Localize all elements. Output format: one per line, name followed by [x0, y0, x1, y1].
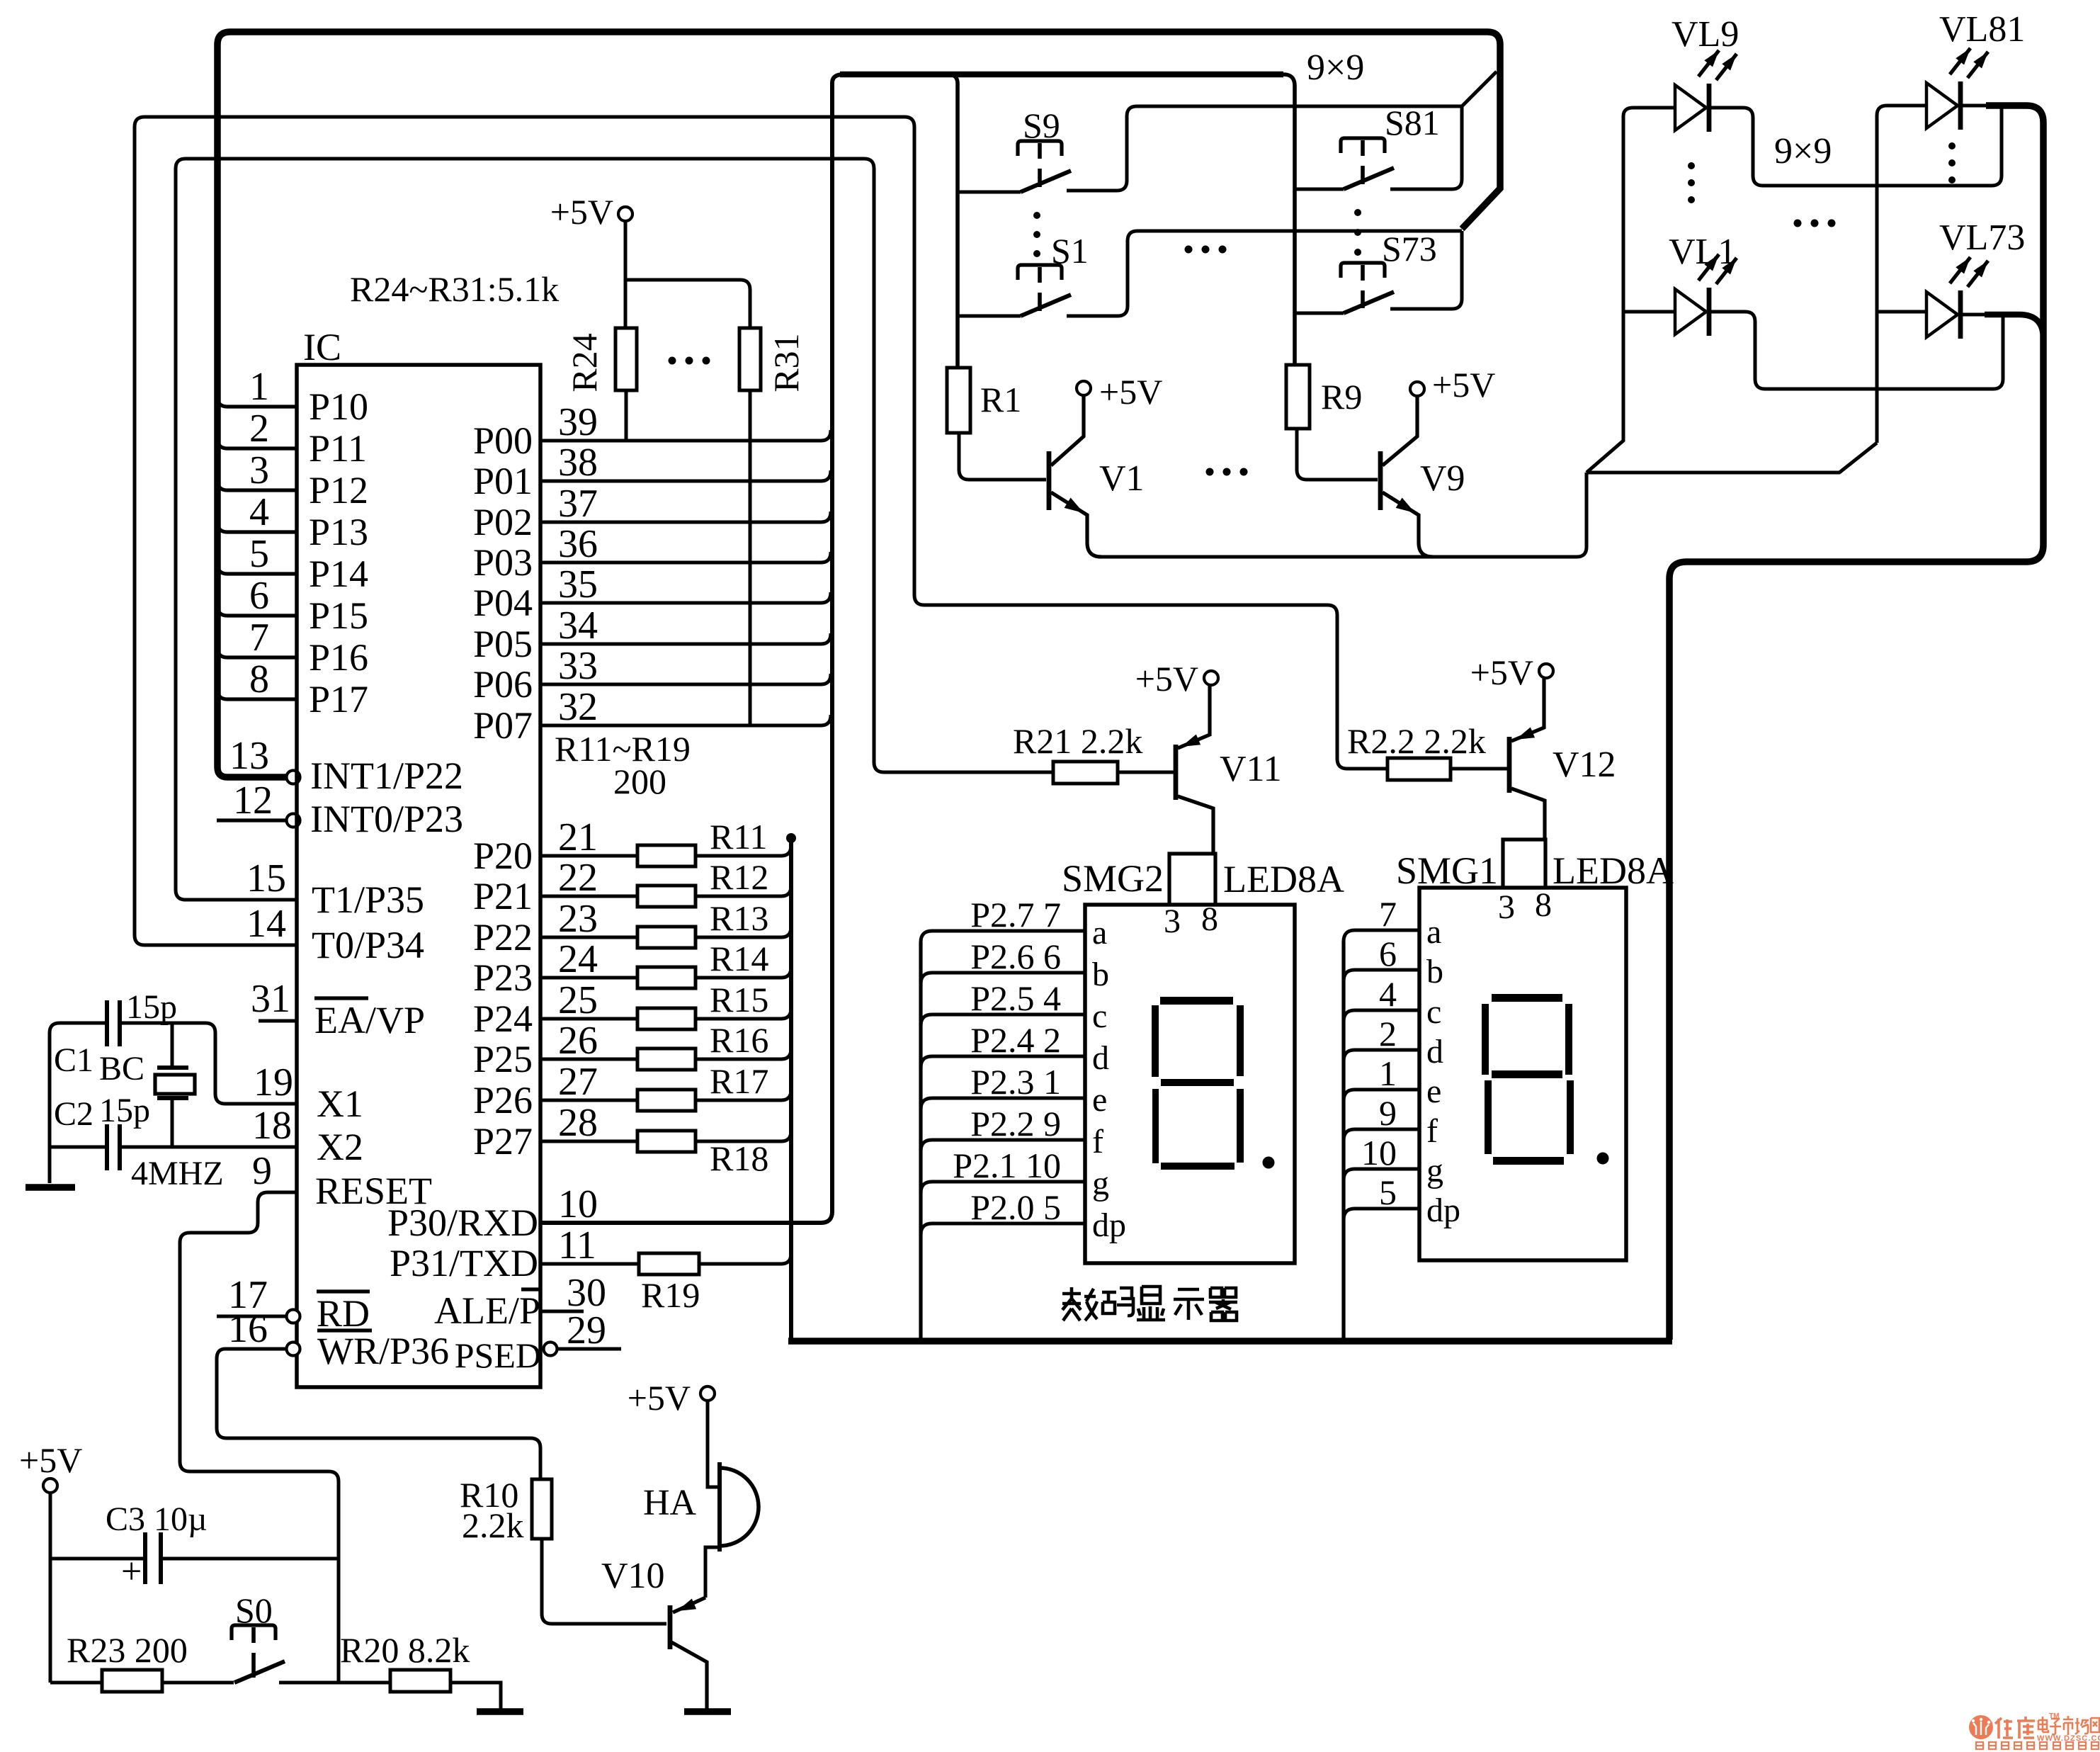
wire S73 left contact	[1295, 312, 1344, 315]
transistor V12 base bar	[1507, 737, 1512, 793]
svg-text:P01: P01	[473, 460, 533, 502]
switch S9 (pushbutton)	[1018, 141, 1062, 156]
LED VL1 triangle	[1675, 289, 1706, 334]
svg-text:31: 31	[251, 977, 290, 1021]
svg-text:P22: P22	[473, 916, 533, 959]
wire S81 right contact to row 1	[1390, 106, 1462, 189]
wire pin 5 stub P14	[217, 564, 297, 574]
wire speaker to V10 emitter	[705, 1547, 720, 1598]
wire R9 to V9 base	[1297, 429, 1378, 480]
speaker HA	[717, 1462, 722, 1552]
svg-text:d: d	[1092, 1039, 1109, 1077]
svg-text:P05: P05	[473, 623, 533, 665]
wire T1/P35 row-select line to V11 base (via R21)	[176, 159, 1053, 900]
wire R15 output to segment bus	[696, 1008, 791, 1019]
svg-text:C3 10µ: C3 10µ	[106, 1500, 208, 1538]
wire pin 1 stub P10	[217, 397, 297, 407]
wire R14 output to segment bus	[696, 967, 791, 978]
resistor R21 (2.2k) base resistor of V11	[1053, 762, 1118, 784]
wire S81 left contact	[1295, 188, 1344, 191]
wire SMG1 pin stub c	[1344, 1010, 1419, 1022]
svg-text:33: 33	[558, 644, 598, 688]
wire pin 21 P20 line	[540, 854, 637, 858]
transistor V11 base bar	[1174, 745, 1179, 800]
pin 29 bubble PSED	[544, 1343, 557, 1356]
svg-text:V10: V10	[601, 1556, 665, 1596]
power +5V terminal V12	[1539, 664, 1553, 678]
LED VL73 cathode bar	[1958, 290, 1963, 339]
svg-text:INT1/P22: INT1/P22	[310, 755, 463, 797]
wire pin 36 P03 line to P0 bus	[540, 552, 831, 563]
dots between S1 and S73	[1185, 246, 1193, 254]
svg-text:b: b	[1092, 956, 1109, 993]
wire R10 to V10 base	[542, 1539, 666, 1624]
LED VL1 light arrows	[1698, 254, 1719, 281]
SMG2 digit segment upper-right	[1237, 1005, 1244, 1076]
svg-text:S81: S81	[1385, 103, 1440, 142]
wire SMG1 segment fan bus	[1341, 942, 1345, 1341]
svg-text:+5V: +5V	[1099, 372, 1162, 412]
resistor R2.2 (2.2k) base resistor of V12	[1387, 758, 1451, 780]
wire VL73 row to thick bus	[1985, 315, 2043, 339]
svg-text:P2.7 7: P2.7 7	[970, 895, 1061, 934]
wire C2 to ground rail	[50, 1146, 105, 1149]
wire SMG2 pin stub b	[921, 973, 1085, 984]
svg-text:R19: R19	[641, 1275, 700, 1315]
svg-text:P2.6 6: P2.6 6	[970, 937, 1061, 976]
switch S81 (pushbutton)	[1341, 138, 1385, 153]
svg-text:24: 24	[558, 937, 598, 981]
svg-text:S73: S73	[1382, 229, 1437, 269]
SMG2 digit segment lower-left	[1152, 1089, 1159, 1163]
SMG1 common pin tab	[1503, 840, 1545, 888]
svg-text:P27: P27	[473, 1120, 533, 1163]
wire pin 8 stub P17	[217, 689, 297, 699]
pin 16 bubble	[287, 1343, 300, 1356]
wire +5V to R24	[624, 221, 628, 328]
switch S1 (pushbutton)	[1018, 265, 1062, 280]
svg-text:dp: dp	[1426, 1192, 1460, 1229]
svg-text:39: 39	[558, 400, 598, 444]
svg-text:BC: BC	[99, 1050, 144, 1087]
svg-text:200: 200	[613, 762, 666, 801]
wire +5V to speaker	[708, 1401, 720, 1487]
wire pin 28 P27 line	[540, 1140, 637, 1143]
svg-text:P2.4 2: P2.4 2	[970, 1020, 1061, 1060]
wire SMG1 pin stub a	[1344, 930, 1419, 942]
LED VL81 cathode bar	[1958, 81, 1963, 130]
svg-text:P02: P02	[473, 501, 533, 543]
resistor R1	[947, 368, 970, 433]
wire pin 3 stub P12	[217, 480, 297, 490]
svg-text:P2.1 10: P2.1 10	[953, 1146, 1061, 1185]
svg-text:34: 34	[558, 604, 598, 648]
IC U1 (8051 MCU) body	[297, 365, 540, 1387]
wire C3 left	[50, 1557, 143, 1561]
wire pin 29 stub PSED	[557, 1347, 621, 1351]
wire LED column 9 riser	[1877, 106, 1926, 443]
svg-text:8: 8	[1201, 900, 1218, 938]
crystal BC lower plate and lead	[157, 1096, 188, 1100]
svg-text:27: 27	[558, 1060, 598, 1104]
transistor V9 emitter	[1383, 492, 1433, 557]
svg-text:35: 35	[558, 563, 598, 606]
resistor R9	[1286, 365, 1310, 429]
SMG2 decimal point	[1263, 1157, 1275, 1169]
resistor R19 (200)	[639, 1253, 699, 1275]
wire R20 to ground	[450, 1683, 501, 1709]
svg-text:C1: C1	[54, 1041, 93, 1079]
wire pin 2 stub P11	[217, 439, 297, 448]
svg-text:e: e	[1426, 1073, 1441, 1110]
wire pin 26 P25 line	[540, 1058, 637, 1061]
wire SMG1 pin stub e	[1344, 1090, 1419, 1101]
SMG2 digit segment middle	[1161, 1079, 1234, 1086]
dots between S9 and S1	[1033, 212, 1040, 219]
wire R31 down to P07 line	[749, 390, 752, 725]
power +5V terminal V9	[1410, 382, 1424, 396]
svg-text:HA: HA	[643, 1483, 697, 1523]
wire T0/P34 row-select line to V12 base (via R2.2)	[135, 117, 1387, 945]
wire VL73 anode from column 9	[1877, 310, 1926, 314]
svg-text:6: 6	[249, 574, 269, 618]
svg-text:R17: R17	[710, 1061, 768, 1101]
V1 emitter arrow	[1065, 498, 1084, 514]
wire segment bus bottom (thick, under displays)	[788, 1338, 1672, 1345]
svg-text:3: 3	[1164, 903, 1181, 940]
svg-text:P25: P25	[473, 1038, 533, 1080]
label shuma xianshiqi (digital display)	[1062, 1287, 1237, 1321]
wire R1 to V1 base	[959, 433, 1046, 480]
svg-text:18: 18	[252, 1104, 292, 1148]
V9 emitter arrow	[1396, 498, 1415, 514]
svg-text:P03: P03	[473, 541, 533, 584]
svg-text:+: +	[121, 1552, 142, 1592]
LED VL1 cathode bar	[1707, 288, 1712, 336]
SMG1 digit segment upper-left	[1482, 1004, 1489, 1075]
LED VL73 light arrows	[1950, 257, 1970, 283]
svg-text:2.2k: 2.2k	[462, 1505, 524, 1545]
LED VL81 triangle	[1926, 83, 1958, 128]
svg-text:R11: R11	[710, 817, 768, 857]
transistor V12 emitter to +5V	[1511, 678, 1544, 741]
wire branch to R31	[625, 280, 750, 328]
SMG1 digit segment upper-right	[1565, 1004, 1572, 1075]
wire key column 9 drop (S81/S73 column)	[1283, 74, 1295, 365]
wire key row 1 (S9..S81 right contacts to bus)	[1067, 72, 1497, 191]
wire R21 to V11 base	[1118, 771, 1174, 774]
svg-text:VL1: VL1	[1669, 232, 1736, 272]
resistor R20 (8.2k)	[390, 1670, 450, 1692]
svg-text:RD: RD	[317, 1292, 370, 1335]
svg-text:VL81: VL81	[1939, 9, 2025, 50]
transistor V1 emitter	[1051, 492, 1101, 557]
wire pin 34 P05 line to P0 bus	[540, 633, 831, 644]
svg-text:6: 6	[1379, 934, 1397, 973]
transistor V11 emitter to +5V	[1178, 685, 1210, 748]
wire pin 30 stub ALE/P	[540, 1310, 584, 1313]
svg-text:P16: P16	[309, 636, 368, 679]
svg-text:15p: 15p	[126, 988, 177, 1026]
svg-text:P15: P15	[309, 594, 368, 637]
svg-text:P12: P12	[309, 469, 368, 512]
LED VL9 light arrows	[1698, 50, 1719, 77]
display SMG1 body	[1419, 888, 1626, 1260]
wire pin 6 stub P15	[217, 606, 297, 616]
svg-text:d: d	[1426, 1033, 1443, 1070]
resistor R13 (200)	[637, 927, 696, 948]
svg-text:S9: S9	[1023, 106, 1060, 145]
wire R23 to S0	[162, 1681, 234, 1685]
svg-text:g: g	[1426, 1152, 1443, 1189]
wire R13 output to segment bus	[696, 927, 791, 937]
watermark logo circle	[1969, 1715, 1993, 1739]
wire C3 right to reset node	[161, 1557, 339, 1561]
svg-text:32: 32	[558, 685, 598, 729]
wire S1 left contact	[958, 315, 1021, 318]
svg-text:14: 14	[246, 902, 286, 946]
wire pin 35 P04 line to P0 bus	[540, 592, 831, 603]
svg-text:+5V: +5V	[1470, 652, 1533, 692]
wire pin 23 P22 line	[540, 936, 637, 939]
wire pin 37 P02 line to P0 bus	[540, 512, 831, 522]
svg-text:4: 4	[249, 490, 269, 534]
svg-text:9: 9	[252, 1149, 272, 1193]
svg-text:+5V: +5V	[1135, 659, 1198, 699]
wire pin 4 stub P13	[217, 522, 297, 532]
svg-text:ALE/P: ALE/P	[434, 1289, 540, 1332]
svg-text:LED8A: LED8A	[1223, 858, 1344, 900]
svg-text:R13: R13	[710, 898, 768, 938]
svg-text:P24: P24	[473, 997, 533, 1040]
wire WR/P36 to R10	[217, 1349, 540, 1479]
transistor V11 collector to SMG2	[1178, 796, 1213, 854]
junction dot segment bus top	[786, 833, 796, 843]
SMG2 common pin tab	[1169, 854, 1215, 905]
svg-text:P23: P23	[473, 956, 533, 999]
SMG1 digit segment lower-left	[1485, 1080, 1492, 1154]
svg-text:8: 8	[249, 657, 269, 701]
resistor R11 (200)	[637, 845, 696, 866]
wire SMG2 pin stub f	[921, 1140, 1085, 1151]
capacitor C2 plates	[105, 1124, 109, 1170]
wire VL73 cathode out	[1960, 313, 1987, 317]
power +5V terminal V11	[1204, 671, 1218, 685]
wire segment bus A vertical	[789, 838, 793, 1338]
dots between V1 and V9	[1206, 468, 1214, 476]
LED VL9 triangle	[1675, 85, 1706, 130]
svg-text:P31/TXD: P31/TXD	[390, 1242, 538, 1284]
svg-text:S0: S0	[235, 1590, 273, 1630]
wire SMG1 pin stub d	[1344, 1050, 1419, 1061]
wire LED column 1 riser	[1587, 108, 1675, 473]
svg-text:R9: R9	[1321, 377, 1362, 417]
svg-text:R18: R18	[710, 1138, 768, 1178]
svg-text:P11: P11	[309, 427, 367, 470]
wire X2 pin line	[121, 1146, 297, 1149]
wire SMG2 pin stub a	[921, 931, 1085, 942]
resistor R14 (200)	[637, 967, 696, 988]
wire VL1 cathode loop to row 2	[1709, 312, 2003, 389]
crystal BC upper lead and plate	[171, 1023, 174, 1066]
svg-text:V11: V11	[1220, 749, 1282, 789]
wire SMG2 segment fan bus	[919, 942, 922, 1341]
svg-text:9×9: 9×9	[1307, 47, 1364, 88]
wire P1 bus: P10-P17/INT1 to key-matrix rows (thick top bus)	[217, 32, 1500, 777]
wire C1 to ground rail	[50, 1023, 105, 1183]
svg-text:R23 200: R23 200	[67, 1630, 188, 1670]
transistor V1 base bar	[1047, 451, 1052, 510]
svg-text:3: 3	[1498, 888, 1515, 926]
transistor V12 collector to SMG1	[1511, 789, 1545, 840]
wire S0 right contact to reset node	[279, 1681, 339, 1685]
wire +5V rail to R23	[50, 1681, 102, 1685]
watermark slogan squares	[1976, 1742, 2099, 1749]
wire +5V down to R23	[49, 1493, 52, 1683]
svg-text:e: e	[1092, 1081, 1107, 1119]
svg-text:a: a	[1426, 913, 1441, 951]
resistor R10 (2.2k)	[532, 1479, 552, 1539]
wire key row 2 (S1..S73 right contacts)	[1067, 231, 1462, 316]
svg-text:P06: P06	[473, 663, 533, 706]
svg-text:5: 5	[1379, 1172, 1397, 1212]
svg-text:P13: P13	[309, 511, 368, 553]
wire SMG1 pin stub dp	[1344, 1209, 1419, 1220]
svg-text:R2.2 2.2k: R2.2 2.2k	[1347, 721, 1486, 761]
svg-text:10: 10	[1361, 1133, 1397, 1172]
svg-text:38: 38	[558, 441, 598, 485]
svg-text:R24: R24	[564, 333, 604, 392]
resistor R18 (200)	[637, 1131, 696, 1152]
pin 17 bubble	[287, 1310, 300, 1323]
SMG1 digit segment top	[1492, 994, 1562, 1002]
wire emitter bus to LED columns	[1099, 473, 1587, 557]
svg-text:P14: P14	[309, 553, 368, 595]
svg-text:R14: R14	[710, 939, 768, 978]
svg-text:1: 1	[249, 365, 269, 409]
wire RESET pin to reset network	[180, 1192, 339, 1683]
svg-text:8: 8	[1535, 886, 1552, 924]
wire R12 output to segment bus	[696, 886, 791, 896]
wire pin 17 stub RD	[217, 1315, 286, 1318]
svg-text:25: 25	[558, 978, 598, 1022]
svg-text:11: 11	[558, 1223, 596, 1267]
svg-text:P17: P17	[309, 678, 368, 720]
svg-text:P00: P00	[473, 419, 533, 462]
wire pin 7 stub P16	[217, 648, 297, 657]
svg-text:16: 16	[228, 1307, 268, 1351]
wire R24 to P00 line	[625, 390, 628, 441]
wire pin 31 stub EA/VP	[259, 1019, 297, 1023]
svg-text:IC: IC	[303, 326, 341, 368]
svg-text:R15: R15	[710, 980, 768, 1019]
svg-text:1: 1	[1379, 1053, 1397, 1093]
wire reset node to R20	[339, 1681, 390, 1685]
wire R11 output to segment bus	[696, 845, 791, 856]
svg-text:23: 23	[558, 897, 598, 941]
svg-text:f: f	[1426, 1112, 1438, 1150]
svg-text:P04: P04	[473, 582, 533, 624]
wire R19 output to segment bus	[699, 1253, 791, 1264]
V10 emitter arrow	[677, 1599, 696, 1612]
ground (R20)	[477, 1708, 523, 1715]
switch S73 (pushbutton)	[1341, 263, 1385, 278]
wire P0 bus top horizontal (thick)	[840, 72, 1283, 78]
wire P0 bus vertical (to key matrix columns, ends at P30/RXD pin 10)	[540, 74, 844, 1223]
svg-text:4: 4	[1379, 974, 1397, 1014]
svg-text:3: 3	[249, 448, 269, 492]
transistor V10 emitter (from speaker)	[673, 1598, 705, 1612]
svg-text:29: 29	[567, 1309, 606, 1352]
svg-text:f: f	[1092, 1123, 1103, 1160]
transistor V10 collector to ground	[671, 1642, 707, 1709]
svg-text:C2: C2	[54, 1095, 93, 1133]
svg-text:T0/P34: T0/P34	[312, 924, 424, 966]
svg-text:P30/RXD: P30/RXD	[387, 1202, 538, 1244]
wire pin 24 P23 line	[540, 976, 637, 980]
svg-text:P07: P07	[473, 704, 533, 747]
svg-text:b: b	[1426, 953, 1443, 990]
svg-text:+5V: +5V	[550, 192, 613, 232]
wire LED column bus bottom	[1587, 443, 1877, 473]
V11 emitter arrow	[1181, 735, 1201, 747]
svg-text:5: 5	[249, 532, 269, 576]
svg-text:SMG1: SMG1	[1396, 849, 1498, 892]
svg-text:22: 22	[558, 856, 598, 900]
dots between R24 and R31	[669, 357, 676, 365]
wire pin 11 P31/TXD line to R19	[540, 1262, 639, 1266]
svg-text:V9: V9	[1420, 458, 1465, 499]
wire R16 output to segment bus	[696, 1049, 791, 1059]
wire SMG2 pin stub c	[921, 1015, 1085, 1026]
SMG2 digit segment upper-left	[1152, 1005, 1159, 1077]
wire VL1 anode from column 1	[1623, 310, 1675, 314]
svg-text:R16: R16	[710, 1020, 768, 1060]
svg-text:15p: 15p	[99, 1092, 150, 1129]
svg-text:T1/P35: T1/P35	[312, 878, 424, 921]
display SMG2 body	[1085, 905, 1295, 1263]
svg-text:+5V: +5V	[1432, 365, 1495, 405]
svg-text:10: 10	[558, 1182, 598, 1226]
svg-text:P2.2 9: P2.2 9	[970, 1104, 1061, 1143]
SMG1 digit segment middle	[1492, 1070, 1562, 1078]
dots between S81 and S73	[1354, 209, 1361, 216]
dots LED column 9	[1948, 142, 1956, 149]
wire R17 output to segment bus	[696, 1090, 791, 1100]
svg-text:+5V: +5V	[19, 1440, 82, 1480]
svg-text:R1: R1	[980, 380, 1021, 419]
resistor R17 (200)	[637, 1090, 696, 1111]
resistor R15 (200)	[637, 1008, 696, 1029]
svg-text:LED8A: LED8A	[1553, 849, 1674, 892]
capacitor C3 plates (electrolytic)	[143, 1532, 147, 1584]
wire SMG1 pin stub f	[1344, 1129, 1419, 1141]
ground (V10)	[684, 1708, 731, 1715]
pin 12 bubble	[287, 814, 300, 827]
svg-text:V12: V12	[1553, 745, 1616, 785]
svg-text:P2.0 5: P2.0 5	[970, 1187, 1061, 1227]
wire VL9 cathode loop to row 1	[1709, 106, 2002, 186]
svg-text:VL73: VL73	[1939, 217, 2025, 258]
power +5V terminal (reset)	[43, 1479, 57, 1493]
ground (crystal)	[25, 1184, 75, 1191]
wire SMG2 pin stub d	[921, 1056, 1085, 1068]
svg-text:P2.5 4: P2.5 4	[970, 978, 1061, 1018]
power +5V terminal (buzzer)	[700, 1386, 715, 1401]
wire R18 output to segment bus	[696, 1131, 791, 1141]
wire pin 33 P06 line to P0 bus	[540, 674, 831, 684]
wire SMG2 pin stub g	[921, 1182, 1085, 1193]
